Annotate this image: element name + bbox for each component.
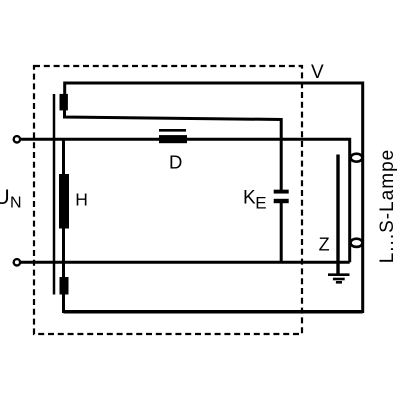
wire: capacitor bottom lead bbox=[280, 202, 283, 262]
lamp electrode bottom bbox=[351, 239, 363, 247]
wire outer loop: top wire y83, right wire x362.7, bottom wire y311.5 bbox=[64, 83, 363, 312]
lamp electrode top bbox=[351, 154, 363, 162]
transformer winding W3 (bottom) bbox=[60, 277, 69, 295]
svg-text:L...S-Lampe: L...S-Lampe bbox=[377, 149, 398, 264]
terminal top (mains input) bbox=[14, 136, 20, 142]
wire: upper mains wire y139 from terminal to lamp, then down lamp left side bbox=[21, 139, 350, 262]
ballast enclosure V (dashed box) bbox=[34, 66, 302, 334]
wire: lower mains wire y262 bbox=[21, 261, 350, 264]
terminal bottom (mains input) bbox=[14, 259, 20, 265]
transformer core bbox=[53, 94, 56, 295]
svg-text:Z: Z bbox=[319, 235, 330, 255]
ground bbox=[328, 275, 350, 283]
wire bottom (thicker) bbox=[64, 310, 363, 314]
svg-text:D: D bbox=[169, 151, 182, 172]
transformer winding H bbox=[59, 174, 69, 229]
ignition strip Z bbox=[336, 155, 339, 275]
svg-text:N: N bbox=[10, 195, 22, 212]
choke D winding bbox=[159, 135, 187, 143]
svg-text:V: V bbox=[311, 62, 324, 83]
choke D core bar bbox=[159, 129, 186, 132]
wire: transformer winding axis x63.5 (H and W3 connections) bbox=[62, 139, 65, 294]
svg-text:K: K bbox=[243, 188, 256, 209]
transformer winding W1 (top) bbox=[60, 94, 68, 111]
svg-text:E: E bbox=[255, 194, 266, 213]
svg-text:H: H bbox=[75, 190, 88, 210]
svg-text:U: U bbox=[0, 186, 10, 209]
wire: winding W1 bottom to capacitor branch (y~117-119.5) bbox=[65, 110, 282, 190]
capacitor KE plates bbox=[274, 190, 289, 194]
